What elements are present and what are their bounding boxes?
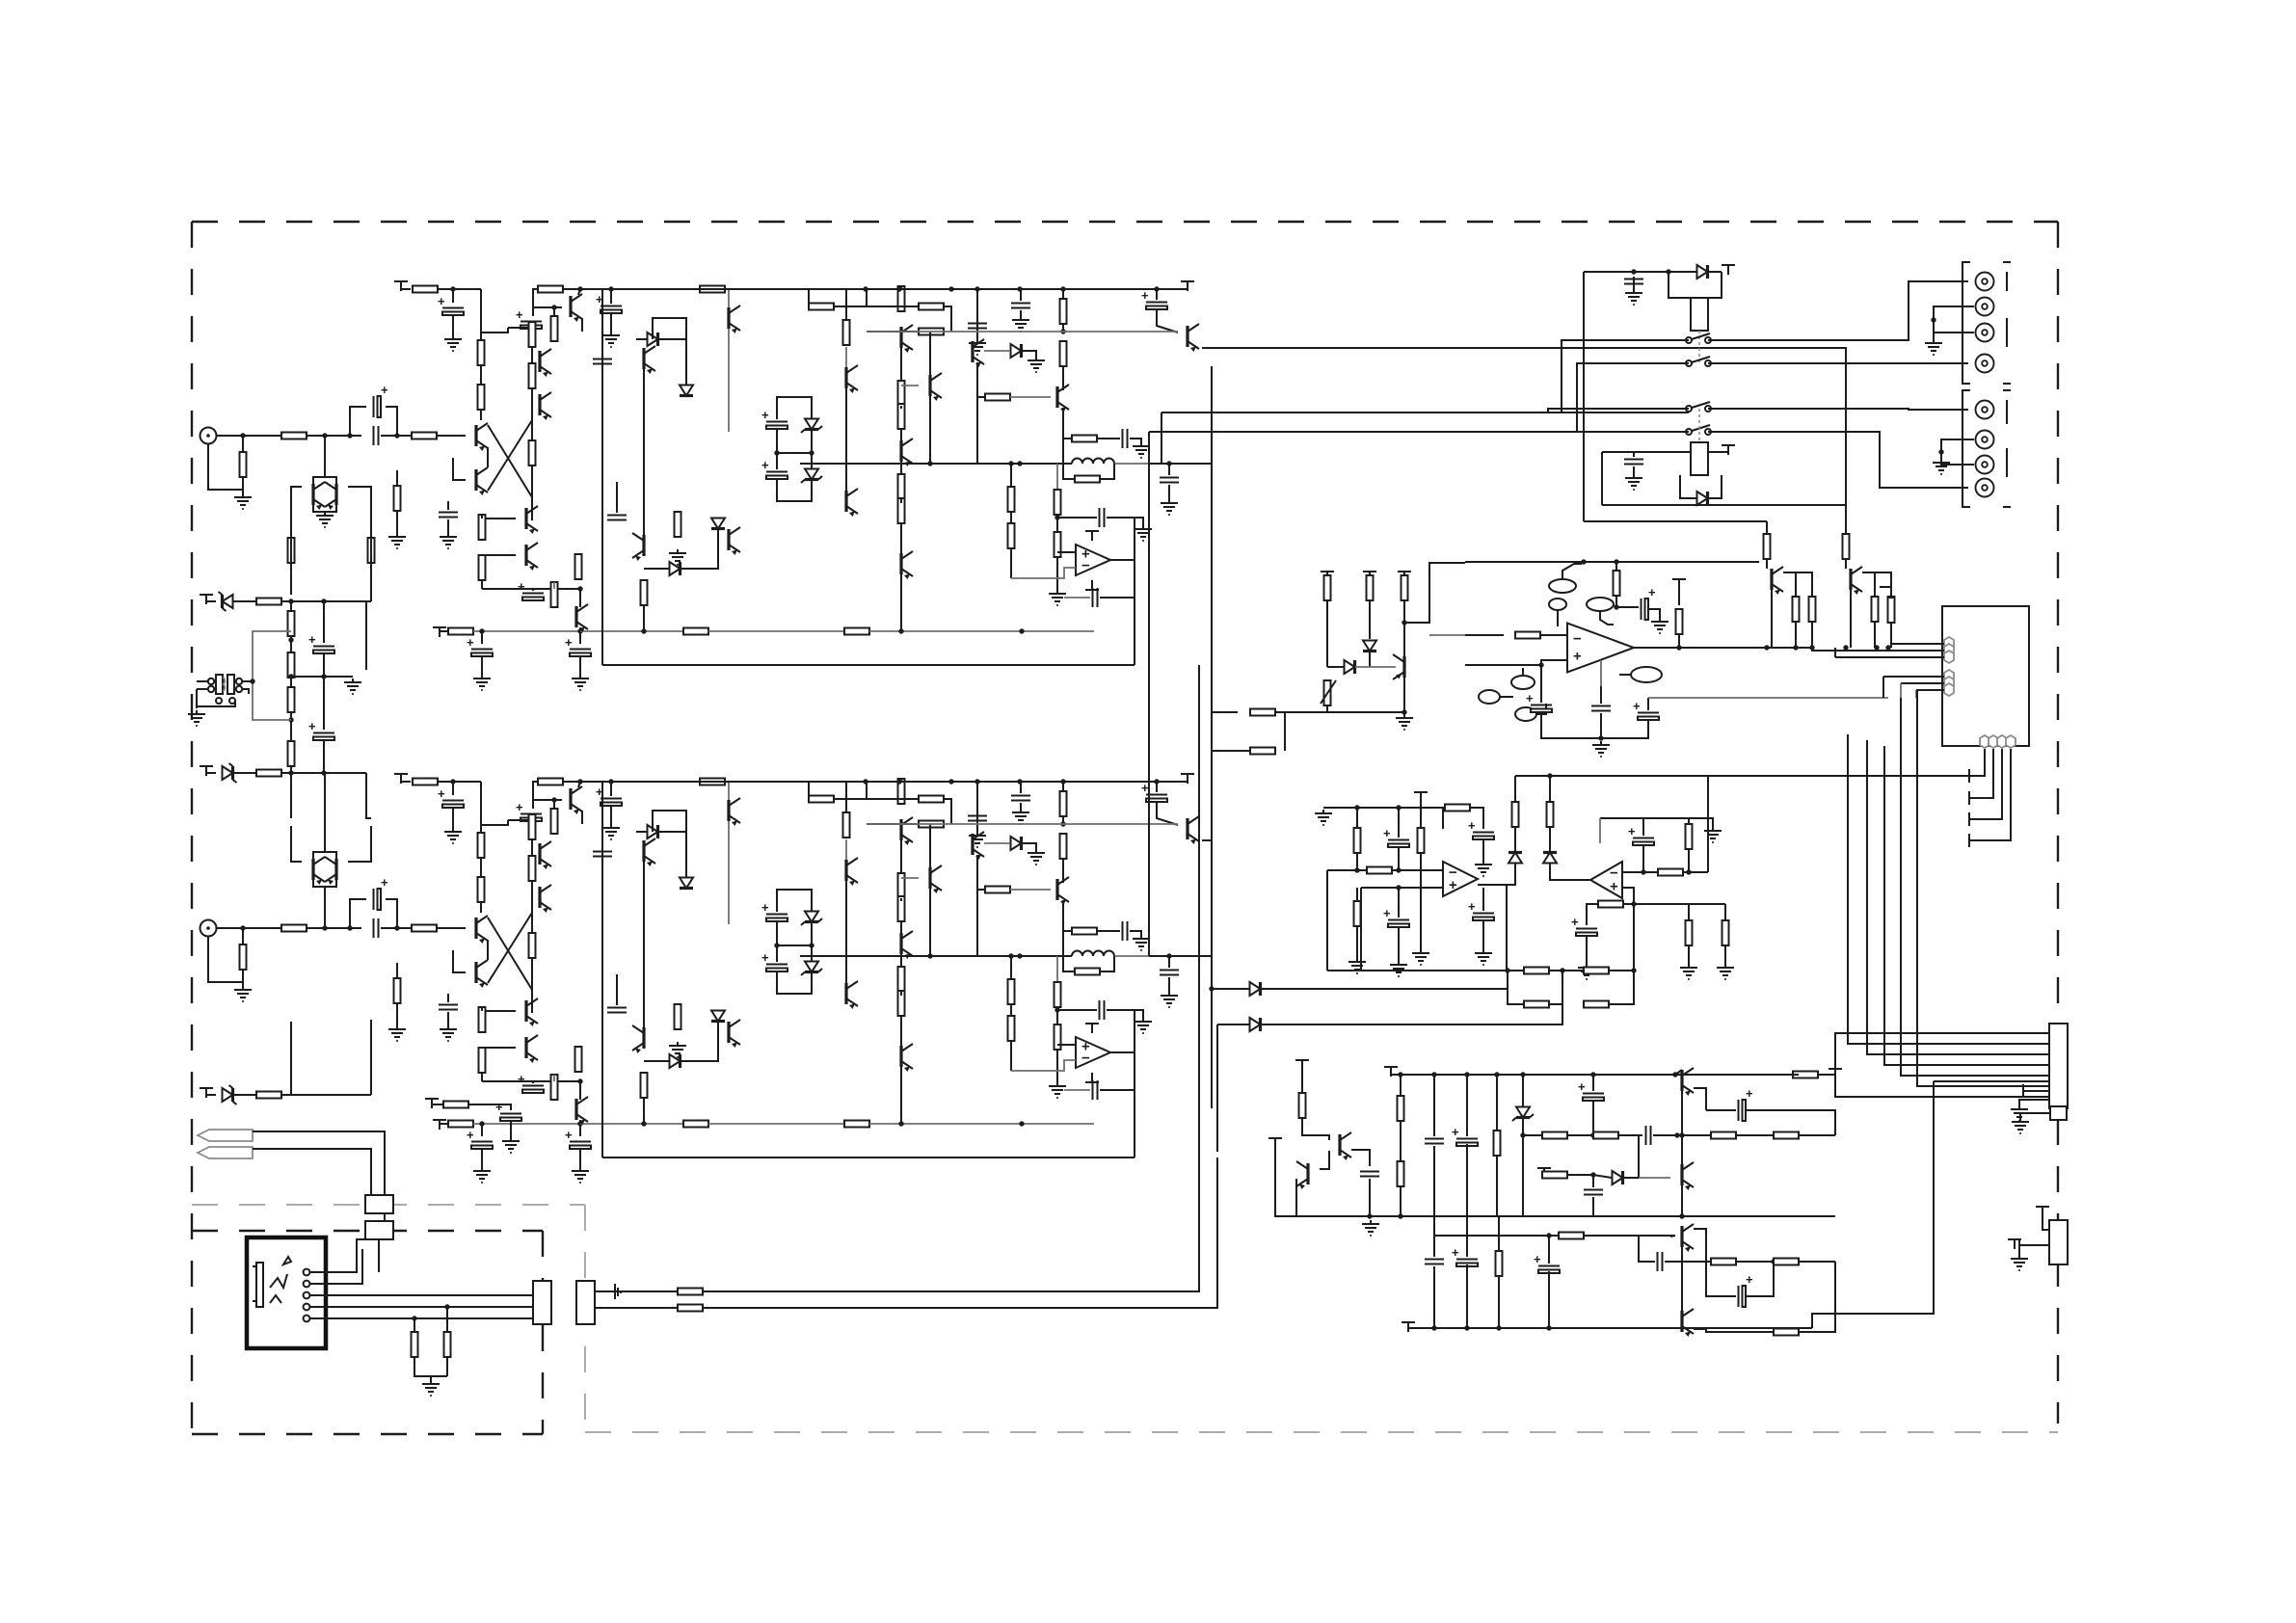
- wire: [290, 773, 292, 818]
- transistor cs bias L Q3: [571, 294, 582, 322]
- term stub: [1402, 1322, 1415, 1332]
- IC pin hex b2: [1989, 735, 1998, 748]
- node: [577, 628, 582, 633]
- resistor dz2 R131: [1547, 802, 1554, 827]
- wire: [1010, 548, 1012, 578]
- capacitor electrolytic cs R C24: [516, 800, 542, 821]
- supply stub: [1363, 572, 1376, 581]
- transistor pre-driver2 L Q16: [846, 489, 858, 517]
- node: [1793, 645, 1798, 650]
- wire: [929, 889, 931, 956]
- wire: [1622, 871, 1658, 873]
- node: [1931, 317, 1936, 322]
- transistor second stage b L Q7: [540, 392, 551, 420]
- wire: [1592, 1175, 1594, 1187]
- capacitor servo fb R C40: [1093, 1080, 1098, 1100]
- wire: [1062, 816, 1064, 824]
- svg-text:+: +: [1468, 818, 1476, 833]
- ground: [1133, 935, 1150, 950]
- wire: [290, 601, 292, 611]
- jack pins: [304, 1269, 310, 1322]
- wire: [1356, 853, 1358, 870]
- resistor input shunt L R3: [240, 452, 247, 477]
- wire: [492, 1306, 535, 1308]
- wire: [1771, 590, 1773, 648]
- capacitor L mid2 C11: [607, 516, 627, 520]
- wire: [1056, 1050, 1058, 1082]
- wire: [1130, 439, 1141, 442]
- ground: [1717, 964, 1734, 979]
- node: [412, 1316, 416, 1320]
- wire: [531, 420, 533, 497]
- wire: [776, 945, 778, 962]
- resistor R56: [394, 978, 401, 1003]
- wire: [381, 927, 412, 929]
- wire: [480, 902, 482, 913]
- wire: [681, 1022, 718, 1061]
- ground: [669, 1042, 686, 1057]
- resistor R69: [898, 967, 905, 992]
- resistor cmp top R128: [1445, 805, 1470, 811]
- wire: [1670, 1236, 1675, 1237]
- capacitor electrolytic low2 L C8: [565, 635, 591, 656]
- wire: [1549, 776, 1551, 802]
- transistor prot R1 Q52: [1682, 1068, 1694, 1096]
- resistor cmp6 R129: [1418, 828, 1425, 853]
- wire: [900, 840, 902, 873]
- node: [1055, 1007, 1059, 1012]
- wire: [1706, 1329, 1774, 1332]
- wire: [281, 600, 371, 602]
- wire: [1301, 1066, 1303, 1093]
- wire: [704, 1157, 1217, 1308]
- zener left top D15: [219, 592, 233, 611]
- bus wire r5: [1901, 698, 2049, 1076]
- svg-text:+: +: [467, 1128, 474, 1142]
- resistor low2 R18: [683, 628, 708, 635]
- wire: [708, 630, 844, 632]
- wire: [482, 518, 516, 519]
- node: [1809, 645, 1814, 650]
- wire: [977, 396, 985, 398]
- wire: [1100, 464, 1114, 479]
- wire: [579, 656, 581, 675]
- bus vertical C: [1211, 366, 1213, 1108]
- resistor drv3 R73: [919, 821, 944, 828]
- wire: [1548, 409, 1689, 412]
- wire: [1683, 871, 1708, 873]
- wire: [1639, 1177, 1670, 1179]
- relay RY1: [1691, 298, 1708, 331]
- wire: [488, 420, 532, 491]
- node: [288, 674, 293, 678]
- wire: [1400, 1186, 1402, 1216]
- resistor R15: [479, 555, 486, 580]
- wire: [432, 1104, 443, 1105]
- wire: [1391, 1073, 1401, 1075]
- capacitor electrolytic mid R C29: [518, 1072, 544, 1093]
- wire: [1134, 1010, 1135, 1157]
- svg-text:+: +: [381, 383, 388, 397]
- ground: [234, 986, 252, 1001]
- resistor cm2d R134: [1598, 901, 1623, 908]
- wire: [206, 1094, 216, 1096]
- wire: [446, 1357, 448, 1376]
- wire: [531, 347, 533, 420]
- wire: [453, 458, 466, 480]
- transistor driver bot L Q14: [729, 527, 740, 555]
- ground: [1135, 525, 1152, 541]
- resistor link1 R107: [1250, 709, 1275, 716]
- wire: [1736, 1261, 1774, 1263]
- wire: [777, 429, 812, 453]
- ground: [1012, 809, 1029, 824]
- wire: [900, 954, 902, 967]
- node: [250, 678, 254, 683]
- wire: [1689, 903, 1725, 905]
- wire: [1369, 652, 1371, 667]
- transistor driver top L Q13: [729, 306, 740, 333]
- RCA jack out b4 J10: [1976, 479, 1994, 497]
- resistor plm R121: [1559, 1233, 1584, 1239]
- wire: [1548, 1271, 1550, 1328]
- wire: [1678, 634, 1680, 648]
- wire: [438, 288, 481, 290]
- resistor R81: [1055, 982, 1061, 1007]
- zener left bottom D17: [223, 1085, 237, 1104]
- svg-text:+: +: [516, 307, 523, 322]
- transistor muting Q-a L Q1: [313, 482, 325, 510]
- capacitor fb L C19: [1100, 508, 1105, 527]
- supply stub: [1829, 1069, 1842, 1078]
- capacitor electrolytic plE C61: [1739, 1272, 1754, 1307]
- wire: [1973, 749, 2011, 840]
- transistor vas B L Q12: [632, 533, 644, 561]
- oval adj 6: [1515, 704, 1546, 721]
- wire: [253, 1131, 385, 1195]
- wire: [900, 286, 902, 289]
- wire: [438, 781, 481, 783]
- IC pin hex l1: [1944, 637, 1954, 650]
- wire: [808, 289, 810, 306]
- wire: [601, 782, 603, 1157]
- supply stub: [1384, 1067, 1398, 1077]
- wire: [309, 1294, 535, 1296]
- node: [394, 433, 399, 438]
- wire: [481, 289, 508, 333]
- ground: [502, 1137, 520, 1153]
- wire: [531, 913, 533, 990]
- resistor R23: [641, 580, 648, 605]
- wire: [453, 927, 466, 929]
- node: [347, 925, 352, 930]
- wire: [1900, 683, 1902, 698]
- svg-text:+: +: [495, 1100, 503, 1114]
- wire: [533, 289, 562, 307]
- term stub: [1969, 834, 1979, 847]
- node: [1209, 986, 1214, 991]
- wire: [1107, 518, 1143, 525]
- capacitor electrolytic right L C18: [1141, 288, 1167, 309]
- resistor R37: [1060, 299, 1067, 324]
- supply stub: [1722, 445, 1735, 455]
- resistor R39: [1008, 487, 1015, 512]
- relay RY2: [1691, 442, 1708, 475]
- capacitor electrolytic cmp2 C62: [1383, 826, 1409, 847]
- wire: [488, 913, 532, 983]
- wire: [206, 772, 216, 774]
- wire: [1694, 1328, 1706, 1330]
- resistor R22: [675, 512, 681, 537]
- resistor R4: [288, 538, 295, 563]
- ground: [602, 824, 620, 839]
- wire: [1592, 1101, 1594, 1135]
- node: [948, 779, 953, 784]
- wire: [1694, 1229, 1706, 1262]
- wire: [446, 1307, 448, 1332]
- wire: [1514, 776, 1516, 802]
- wire: [1063, 823, 1178, 825]
- wire: [1622, 888, 1634, 904]
- ground: [1348, 958, 1366, 973]
- resistor R14: [479, 515, 486, 540]
- wire: [929, 824, 931, 867]
- resistor drv4 R34: [985, 394, 1010, 401]
- wire: [2027, 1090, 2049, 1092]
- node: [1008, 953, 1013, 958]
- ground: [1704, 827, 1722, 842]
- wire: [1669, 272, 1691, 298]
- capacitor electrolytic pr4 C53: [1578, 1079, 1604, 1101]
- resistor cs R8: [551, 316, 558, 341]
- wire: [845, 839, 847, 860]
- node: [1060, 779, 1065, 784]
- node: [1464, 1072, 1469, 1077]
- RCA input jack R J2: [200, 920, 217, 937]
- resistor cm2a R132: [1658, 869, 1683, 876]
- resistor R62: [675, 1004, 681, 1029]
- wire: [1592, 1075, 1594, 1091]
- capacitor right1 L C14: [968, 324, 987, 329]
- wire: [1404, 563, 1465, 623]
- wire: [440, 630, 449, 632]
- wire: [437, 435, 453, 437]
- zener center1 L D5: [801, 419, 822, 434]
- wire: [242, 436, 244, 453]
- wire: [869, 630, 1094, 632]
- wire: [1818, 1074, 1835, 1076]
- wire: [1584, 520, 1767, 522]
- resistor R27: [898, 381, 905, 406]
- wire: [578, 782, 580, 787]
- capacitor coupling R C21: [374, 918, 379, 938]
- wire: [1149, 955, 1212, 957]
- node: [322, 433, 327, 438]
- svg-text:+: +: [1746, 1086, 1753, 1101]
- wire: [1062, 859, 1064, 883]
- transistor prot R3 Q54: [1682, 1224, 1694, 1252]
- transistor vas B R Q35: [632, 1025, 644, 1053]
- wire: [313, 477, 336, 484]
- wire: [1466, 1216, 1468, 1257]
- capacitor pd2 C56: [1584, 1190, 1603, 1195]
- supply stub: [200, 595, 213, 604]
- cap stub bot L: [1085, 580, 1099, 590]
- wire: [233, 600, 256, 602]
- node: [1019, 1121, 1024, 1126]
- ground: [1028, 849, 1045, 865]
- resistor R52: [529, 856, 536, 881]
- wire: [1506, 885, 1508, 971]
- IC pin hex b4: [2006, 735, 2016, 748]
- capacitor output R C37: [1160, 971, 1179, 975]
- node: [1398, 1213, 1402, 1218]
- svg-text:+: +: [1633, 699, 1641, 713]
- wire: [1168, 956, 1170, 968]
- node: [1874, 645, 1879, 650]
- wire: [1875, 572, 1891, 597]
- wire: [944, 799, 951, 824]
- capacitor fb R C39: [1100, 1000, 1105, 1020]
- wire: [242, 476, 244, 493]
- svg-text:+: +: [467, 635, 474, 650]
- transistor right mid L Q23: [1057, 385, 1069, 412]
- wire: [1057, 1044, 1076, 1046]
- wire: [644, 568, 669, 570]
- wire: [487, 940, 489, 960]
- supply stub: [1321, 572, 1334, 581]
- supply stub right L: [1181, 281, 1194, 291]
- wire: [1653, 1134, 1677, 1136]
- node: [1396, 885, 1401, 890]
- transistor muting Q-b L Q2: [325, 482, 336, 510]
- transistor output bot R Q41: [901, 1044, 913, 1072]
- wire: [1261, 1004, 1562, 1024]
- connector CN-a: [533, 1281, 551, 1324]
- wire: [1202, 839, 1212, 841]
- wire: [1915, 690, 1917, 698]
- wire: [811, 453, 813, 468]
- term stub: [2008, 1239, 2021, 1249]
- wire: [643, 1098, 645, 1124]
- wire: [658, 338, 686, 340]
- wire: [482, 1047, 516, 1049]
- node: [1494, 1072, 1499, 1077]
- connector lug 1: [365, 1195, 393, 1213]
- resistor pm1 R114: [1542, 1132, 1567, 1139]
- resistor bias2 R88: [256, 770, 281, 777]
- resistor bias3 R89: [256, 1092, 281, 1099]
- wire: [658, 831, 686, 833]
- svg-text:−: −: [1081, 1050, 1090, 1066]
- wire: [1799, 1261, 1835, 1263]
- ground: [444, 335, 462, 351]
- wire: [1523, 1134, 1542, 1136]
- svg-text:+: +: [1141, 288, 1149, 303]
- wire: [488, 918, 532, 990]
- wire: [867, 331, 1063, 333]
- svg-text:+: +: [565, 1128, 573, 1142]
- wire: [1011, 568, 1076, 578]
- resistor net4 R140: [1584, 1001, 1609, 1008]
- node: [1666, 269, 1670, 274]
- ground: [669, 549, 686, 565]
- IC pin hex l5: [1944, 677, 1954, 689]
- node: [896, 779, 901, 784]
- wire: [681, 529, 718, 569]
- wire: [1022, 843, 1036, 849]
- diode relay1 D18: [1697, 265, 1708, 279]
- wire: [1623, 903, 1634, 905]
- capacitor electrolytic center2 R C33: [761, 950, 788, 971]
- capacitor electrolytic C43: [495, 1100, 521, 1121]
- diode dz a D24: [1508, 853, 1522, 864]
- node: [479, 628, 484, 633]
- wire: [1433, 1216, 1435, 1257]
- node: [809, 450, 814, 455]
- resistor rail2 R47: [538, 779, 563, 785]
- node: [288, 717, 293, 722]
- wire: [900, 898, 902, 901]
- node: [1464, 1325, 1469, 1330]
- capacitor electrolytic right R C38: [1141, 781, 1167, 802]
- wire: [1845, 559, 1847, 569]
- node: [1431, 1072, 1436, 1077]
- capacitor electrolytic cm2b C66: [1628, 824, 1654, 845]
- resistor jack gnd 1 R91: [412, 1332, 418, 1357]
- wire: [447, 519, 449, 533]
- node: [1679, 1213, 1684, 1218]
- op-amp comparator 1 U4: [1443, 862, 1478, 896]
- ground: [473, 675, 491, 690]
- wire: [1688, 849, 1690, 872]
- wire: [1941, 439, 1974, 465]
- capacitor electrolytic rail R C23: [438, 786, 464, 808]
- node: [240, 433, 245, 438]
- resistor chain1 R84: [288, 611, 295, 636]
- ground: [1028, 357, 1045, 372]
- transistor bank p1 Q47: [1772, 567, 1783, 595]
- capacitor prot C50: [1360, 1172, 1379, 1177]
- cap stub top L: [1085, 531, 1099, 541]
- resistor R54: [479, 1007, 486, 1032]
- wire: [1916, 689, 1944, 691]
- wire: [1550, 864, 1590, 880]
- wire: [208, 443, 243, 490]
- wire: [291, 826, 302, 862]
- resistor chain3 R86: [288, 687, 295, 712]
- supply stub: [1295, 1060, 1309, 1070]
- wire: [324, 887, 326, 928]
- wire: [1642, 818, 1644, 836]
- resistor R70: [898, 991, 905, 1016]
- resistor pl3 R112: [1398, 1161, 1404, 1186]
- transistor bias L Q19: [901, 439, 913, 466]
- node: [577, 286, 582, 291]
- term stub: [1969, 791, 1979, 805]
- wire: [553, 800, 555, 809]
- wire: [1010, 956, 1012, 979]
- wire: [728, 782, 730, 924]
- resistor pr3 R113: [1494, 1131, 1501, 1156]
- transistor right mid R Q46: [1057, 877, 1069, 905]
- wire: [1708, 272, 1722, 298]
- wire: [473, 630, 580, 632]
- capacitor electrolytic low1 R C27: [467, 1128, 493, 1149]
- resistor R90: [443, 1102, 468, 1108]
- wire: [1783, 572, 1796, 597]
- capacitor rail dec L C15: [1011, 304, 1030, 308]
